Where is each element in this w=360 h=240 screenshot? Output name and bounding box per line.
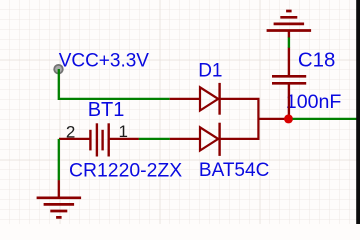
battery BT1 short plate right [101, 130, 103, 151]
svg-text:C18: C18 [298, 49, 335, 71]
ground symbol top bars [267, 11, 312, 31]
svg-text:VCC+3.3V: VCC+3.3V [59, 51, 150, 72]
diode D1b triangle [200, 127, 218, 150]
svg-text:D1: D1 [198, 60, 222, 81]
diode D1a triangle [200, 87, 218, 110]
battery BT1 tall plate [96, 123, 98, 156]
capacitor C18 top pin [288, 47, 290, 75]
capacitor C18 bottom lead [288, 84, 290, 119]
svg-text:100nF: 100nF [286, 91, 342, 113]
svg-text:BAT54C: BAT54C [199, 160, 269, 181]
ground symbol bottom bars [37, 198, 82, 218]
ground symbol top stub [288, 31, 290, 38]
svg-text:BT1: BT1 [88, 99, 125, 121]
svg-text:CR1220-2ZX: CR1220-2ZX [69, 159, 182, 181]
battery BT1 pin 1 lead [109, 138, 139, 140]
diode D1 common cathode tap [258, 118, 288, 120]
diode D1 cathode join lines [220, 99, 259, 139]
ground symbol bottom stub [58, 180, 60, 198]
wire junction to right edge [293, 118, 357, 120]
wire battery pin2 down to ground [58, 139, 60, 181]
battery BT1 pin 2 lead [59, 138, 90, 140]
junction dot [284, 114, 293, 123]
diode D1a anode pin [170, 98, 200, 100]
diode D1a cathode bar [218, 83, 220, 115]
battery BT1 short plate left [89, 130, 91, 151]
power port VCC+3.3V circle [54, 65, 63, 74]
wire battery pin1 to D2 anode [139, 138, 170, 140]
wire cap to top ground [288, 37, 290, 48]
capacitor C18 plates [272, 76, 306, 83]
wire VCC down and right to D1 anode [59, 69, 170, 99]
battery BT1 tall plate right [107, 123, 109, 156]
diode D1b cathode bar [218, 123, 220, 156]
diode D1b anode pin [170, 138, 200, 140]
